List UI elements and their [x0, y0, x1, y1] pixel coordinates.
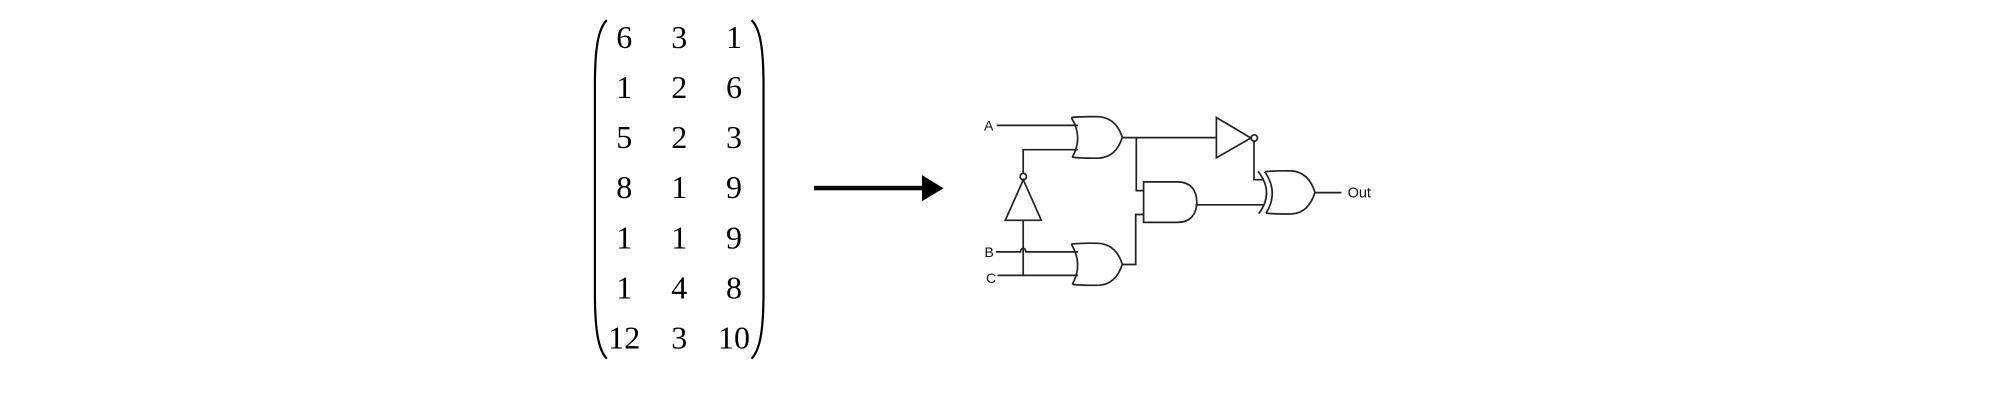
svg-text:1: 1 — [671, 169, 687, 205]
inverter U2 bubble (vertical NOT) — [1020, 173, 1026, 179]
node B input wire with hop over vertical wire — [996, 248, 1078, 252]
or-gate U3 (bottom OR) — [1071, 243, 1122, 285]
svg-text:1: 1 — [671, 219, 687, 255]
matrix right parenthesis — [752, 20, 764, 358]
wire junction to AND upper input — [1136, 138, 1143, 191]
svg-text:5: 5 — [616, 119, 632, 155]
svg-text:3: 3 — [671, 320, 687, 356]
matrix left parenthesis — [595, 20, 607, 358]
xor-gate U6 leading arc — [1258, 171, 1266, 213]
wire XOR output — [1315, 192, 1341, 194]
inverter U5 triangle (horizontal NOT) — [1216, 118, 1251, 158]
svg-text:2: 2 — [671, 69, 687, 105]
inverter U5 bubble — [1251, 135, 1257, 141]
or-gate U1 (top OR) — [1071, 117, 1122, 159]
svg-text:3: 3 — [726, 119, 742, 155]
svg-text:8: 8 — [616, 169, 632, 205]
node C input wire — [998, 274, 1079, 276]
svg-text:3: 3 — [671, 19, 687, 55]
wire OR2 output to AND lower input — [1122, 215, 1143, 265]
svg-text:1: 1 — [616, 219, 632, 255]
arrow head — [922, 175, 944, 201]
inverter U2 triangle (vertical NOT) — [1005, 180, 1041, 221]
wire NOT1 output to OR1 second input — [1023, 150, 1078, 174]
wire AND output to XOR lower input — [1196, 204, 1264, 206]
svg-text:A: A — [984, 117, 994, 133]
and-gate U4 — [1144, 182, 1197, 223]
svg-text:10: 10 — [718, 320, 750, 356]
node A input wire — [997, 124, 1078, 126]
svg-text:B: B — [985, 244, 994, 260]
svg-text:4: 4 — [671, 269, 687, 305]
svg-text:6: 6 — [616, 19, 632, 55]
xor-gate U6 body — [1265, 171, 1315, 214]
svg-text:6: 6 — [726, 69, 742, 105]
svg-text:8: 8 — [726, 269, 742, 305]
arrow shaft — [814, 186, 923, 191]
svg-text:2: 2 — [671, 119, 687, 155]
svg-text:9: 9 — [726, 169, 742, 205]
svg-text:1: 1 — [616, 269, 632, 305]
wire NOT2 output to XOR upper input — [1254, 141, 1264, 179]
svg-text:1: 1 — [726, 19, 742, 55]
svg-text:C: C — [986, 270, 996, 286]
svg-text:1: 1 — [616, 69, 632, 105]
svg-text:Out: Out — [1348, 186, 1371, 202]
svg-text:12: 12 — [608, 320, 640, 356]
wire OR1 output to NOT2 input — [1122, 137, 1216, 139]
wire NOT1 input from node C — [1022, 220, 1024, 275]
svg-text:9: 9 — [726, 219, 742, 255]
